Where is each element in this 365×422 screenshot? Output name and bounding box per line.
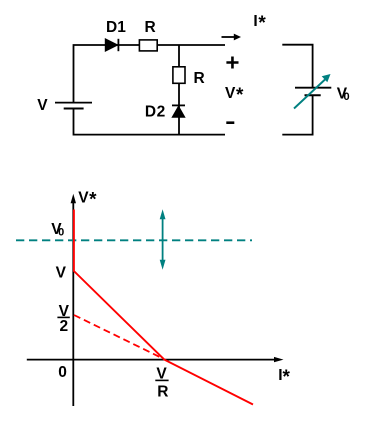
resistor R2 (shunt) [173, 67, 185, 84]
resistor R1 (series) [139, 40, 157, 51]
svg-text:D2: D2 [145, 104, 166, 121]
red dashed extrapolation [74, 315, 164, 359]
variable source arrow (teal) [294, 74, 331, 109]
svg-text:V: V [37, 97, 48, 114]
red V-I characteristic curve [74, 210, 253, 405]
double arrow (teal) [160, 209, 166, 269]
svg-text:D1: D1 [106, 19, 126, 36]
diode D1 [105, 39, 118, 51]
fraction V/R [155, 366, 168, 401]
diode D2 [172, 105, 185, 117]
battery V long plate [55, 102, 92, 104]
svg-text:0: 0 [58, 364, 67, 381]
wire vertical branch [178, 45, 180, 135]
x-axis I* [27, 357, 284, 362]
wire right bottom [282, 95, 312, 134]
svg-text:R: R [194, 70, 205, 87]
svg-text:R: R [157, 383, 168, 400]
battery V0 short plate [305, 94, 321, 96]
battery V0 long plate [295, 87, 331, 89]
label - (terminal) [226, 121, 234, 124]
fraction V/2 [57, 303, 69, 335]
svg-text:R: R [145, 19, 156, 36]
dashed V0 level line (teal) [16, 239, 252, 241]
y-axis V* [71, 194, 76, 406]
wire bottom: battery to output [74, 109, 226, 135]
wire top-left: battery to output [74, 45, 226, 103]
battery V short plate [64, 108, 84, 110]
label + (terminal) [226, 57, 238, 69]
svg-text:2: 2 [60, 318, 69, 335]
wire right top [282, 45, 312, 88]
svg-text:V: V [56, 265, 67, 282]
current arrow I* [222, 34, 242, 41]
